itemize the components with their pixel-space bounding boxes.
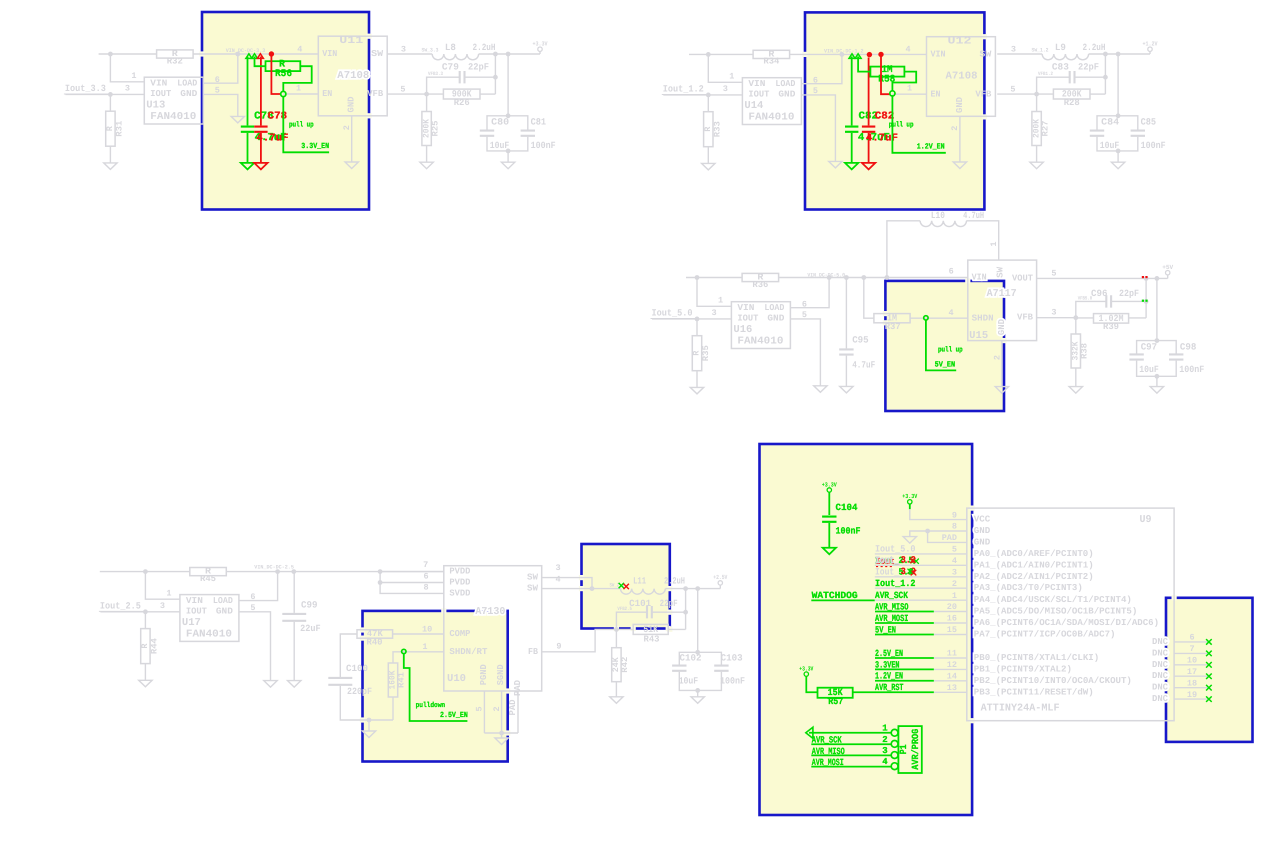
svg-text:VFB: VFB [975, 90, 992, 100]
highlight box 4 (2.5V enable area) [363, 611, 508, 762]
svg-text:1: 1 [166, 588, 171, 598]
svg-text:20: 20 [947, 602, 957, 612]
svg-text:3: 3 [160, 601, 165, 611]
wire R33 to ground [707, 147, 709, 164]
net-tie arrow red (C78) [257, 54, 263, 59]
svg-text:8: 8 [423, 583, 428, 593]
svg-text:C85: C85 [1141, 117, 1157, 128]
ground below R27 [1030, 162, 1043, 169]
wire U17 pin 3 [100, 611, 179, 613]
red junction dot (C82) [867, 52, 872, 57]
svg-text:PA5_(ADC5/DO/MISO/OC1B/PCINT5): PA5_(ADC5/DO/MISO/OC1B/PCINT5) [974, 607, 1137, 617]
node junction LOAD-U17 [275, 569, 280, 574]
wire GND pin 8 [910, 531, 967, 537]
resistor R35 (load) [696, 319, 698, 336]
svg-text:PA2_(ADC2/AIN1/PCINT2): PA2_(ADC2/AIN1/PCINT2) [974, 572, 1094, 582]
svg-text:VFB: VFB [367, 89, 384, 99]
svg-text:1: 1 [729, 72, 734, 82]
svg-text:6: 6 [1189, 633, 1194, 643]
ground below C97 [1150, 387, 1163, 394]
svg-text:SVDD: SVDD [449, 588, 471, 598]
svg-text:PA1_(ADC1/AIN0/PCINT1): PA1_(ADC1/AIN0/PCINT1) [974, 560, 1094, 570]
U9 DNC pin 7 [1152, 644, 1209, 658]
svg-text:R35: R35 [701, 345, 711, 361]
svg-text:Iout_5.0: Iout_5.0 [652, 308, 693, 319]
svg-text:PA0_(ADC0/AREF/PCINT0): PA0_(ADC0/AREF/PCINT0) [974, 549, 1094, 559]
svg-text:R31: R31 [114, 121, 124, 137]
wire U15 GND pin 2 [1001, 341, 1003, 387]
node junction VOUT-R39 [1144, 276, 1149, 281]
svg-text:IOUT: IOUT [186, 607, 208, 617]
wire R31 to ground [109, 146, 111, 163]
svg-text:100nF: 100nF [531, 140, 556, 151]
svg-text:U16: U16 [733, 324, 752, 336]
capacitors C97 and C98 [1156, 278, 1158, 340]
svg-text:A7117: A7117 [987, 288, 1017, 300]
node junction VOUT-C97 [1155, 276, 1160, 281]
svg-text:Iout_: Iout_ [875, 555, 899, 566]
svg-text:2.2uH: 2.2uH [664, 576, 685, 587]
svg-text:VIN: VIN [748, 79, 765, 89]
svg-text:DNC: DNC [1152, 683, 1169, 693]
wire U13 pin 5 GND [203, 94, 238, 116]
resistor R42 (24K) [615, 629, 617, 647]
ground below R31 [104, 163, 117, 170]
svg-text:VFB: VFB [1017, 313, 1034, 323]
node junction at U16 pin1 branch [695, 275, 700, 280]
svg-text:COMP: COMP [449, 629, 471, 639]
svg-text:2: 2 [952, 579, 957, 589]
resistor R26 (900K) [427, 93, 444, 95]
svg-text:22pF: 22pF [1119, 288, 1139, 299]
border gap patches [199, 34, 1176, 736]
svg-text:3: 3 [555, 563, 560, 573]
svg-text:AVR_SCK: AVR_SCK [875, 590, 908, 601]
svg-text:5V_EN: 5V_EN [935, 361, 956, 370]
svg-text:AVR/PROG: AVR/PROG [910, 729, 921, 770]
node junction SW-C80 [506, 52, 511, 57]
wire U16 pin 3 [652, 318, 731, 320]
wire VIN rail to U13 [99, 53, 157, 55]
ground below U15 [995, 387, 1008, 394]
resistor R41 (160K) [392, 697, 394, 720]
capacitor C104 (100nF) [828, 492, 830, 515]
red junction dot on VIN rail (EN) [878, 52, 883, 57]
wire U10 SVDD pin 8 [380, 583, 444, 594]
svg-text:3: 3 [125, 83, 130, 93]
wire C79 left [427, 77, 460, 94]
node junction at U17 pin1 branch [143, 569, 148, 574]
svg-text:4: 4 [882, 757, 888, 767]
wire VIN rail after R32 [193, 53, 318, 55]
svg-text:R43: R43 [644, 635, 660, 645]
svg-text:R57: R57 [828, 696, 843, 707]
svg-text:PA3_(ADC3/T0/PCINT3): PA3_(ADC3/T0/PCINT3) [974, 583, 1083, 593]
node junction at U14 pin1 branch [706, 52, 711, 57]
resistor R31 (load) [109, 94, 111, 111]
svg-text:5: 5 [400, 84, 405, 94]
svg-text:C80: C80 [491, 117, 509, 128]
capacitor C81 (green) [851, 57, 853, 126]
svg-text:4.7uH: 4.7uH [963, 210, 984, 221]
svg-text:L10: L10 [931, 210, 945, 221]
svg-text:1: 1 [882, 724, 888, 734]
wire U16 pin 5 GND [790, 319, 820, 386]
IC U10 A7130 body [444, 566, 542, 691]
svg-text:R32: R32 [167, 56, 183, 66]
svg-text:5: 5 [1051, 268, 1056, 278]
highlight box 3 (5V enable area) [885, 281, 1004, 411]
svg-text:4: 4 [297, 44, 302, 54]
svg-text:SGND: SGND [496, 664, 506, 686]
svg-text:C104: C104 [836, 502, 858, 513]
IC U14 FAN4010 body [742, 78, 801, 125]
ground below R38 [1069, 387, 1082, 394]
node junction SW-C83 [1103, 52, 1108, 57]
wire C101 left [616, 612, 647, 629]
capacitor C96 (22pF) [1106, 295, 1111, 307]
wire SW to L9 [997, 53, 1042, 55]
svg-text:IOUT: IOUT [150, 89, 172, 99]
svg-text:IOUT: IOUT [748, 90, 770, 100]
svg-text:VIN_DC-DC-5.0: VIN_DC-DC-5.0 [807, 273, 845, 279]
stray X markers at SW_2.5 [619, 583, 624, 588]
svg-text:10uF: 10uF [490, 140, 510, 151]
wire L11 to +2.5V [665, 588, 720, 590]
svg-text:R34: R34 [763, 57, 780, 67]
svg-text:C98: C98 [1180, 341, 1197, 352]
svg-text:LOAD: LOAD [177, 79, 198, 89]
wire PAD pin [517, 691, 519, 733]
capacitor C99 (22uF) [291, 569, 296, 574]
ground below R33 [702, 163, 715, 170]
svg-text:22pF: 22pF [660, 598, 678, 609]
svg-text:FAN4010: FAN4010 [186, 628, 232, 640]
ground below R35 [690, 387, 703, 394]
svg-text:14: 14 [947, 672, 957, 682]
wire U10 SW pin 3 [542, 578, 592, 589]
svg-text:GND: GND [778, 90, 796, 100]
svg-text:1: 1 [296, 83, 301, 93]
svg-text:1: 1 [989, 242, 999, 247]
svg-text:+1.2V: +1.2V [1143, 41, 1158, 48]
resistor R36 (sense) [742, 273, 779, 281]
wire SHDN to 5V_EN label [926, 321, 956, 371]
wire P1 pin 1 with arrow [809, 732, 891, 734]
U9 left pin numbers [942, 510, 957, 693]
node junction L11-C102 [695, 586, 700, 591]
wire 2.5V_EN [875, 657, 934, 659]
svg-text:6: 6 [802, 299, 807, 309]
wire C79 right [465, 76, 496, 78]
svg-text:Iout_2.5: Iout_2.5 [100, 601, 141, 612]
svg-text:PVDD: PVDD [449, 567, 471, 577]
svg-text:5: 5 [813, 86, 818, 96]
svg-text:PGND: PGND [479, 664, 489, 686]
inductor L8 [432, 54, 478, 60]
svg-text:VCC: VCC [974, 515, 991, 525]
resistor R34 (sense) [753, 50, 790, 58]
wire L8 to +3.3V [479, 53, 540, 55]
svg-text:3: 3 [1051, 308, 1056, 318]
power flag +3.3V at VCC [908, 500, 912, 504]
svg-text:DNC: DNC [1152, 637, 1169, 647]
svg-text:L8: L8 [445, 42, 456, 53]
svg-text:GND: GND [997, 319, 1007, 336]
svg-text:GND: GND [347, 96, 357, 113]
EN node circle U12 (green) [890, 91, 895, 96]
wire U16 pin 1 [697, 278, 731, 307]
svg-text:10: 10 [1187, 656, 1197, 666]
wire VCC pin 9 [910, 509, 967, 519]
IC U11 A7108 body [318, 36, 387, 116]
svg-text:1: 1 [422, 642, 427, 652]
wire VIN rail after R45 [226, 571, 444, 573]
svg-text:FB: FB [528, 647, 539, 657]
svg-text:PA6_(PCINT6/OC1A/SDA/MOSI/DI/A: PA6_(PCINT6/OC1A/SDA/MOSI/DI/ADC6) [974, 618, 1159, 628]
svg-text:100nF: 100nF [1179, 364, 1204, 375]
highlight box 6 (AVR controller area) [760, 444, 973, 815]
svg-text:C83: C83 [1052, 62, 1069, 73]
wire L9 to +1.2V [1089, 53, 1150, 55]
wire EN to 3.3V_EN label [283, 97, 329, 153]
svg-text:C97: C97 [1141, 341, 1158, 352]
ground below C104 [823, 548, 836, 555]
svg-text:SHDN: SHDN [972, 314, 994, 324]
wire R44 to ground [144, 664, 146, 681]
ground below C81 (green) [845, 163, 858, 170]
no-connect X at pin 17 [1206, 674, 1212, 680]
svg-text:IOUT: IOUT [737, 314, 759, 324]
wire 3.3VEN [875, 668, 934, 670]
wire U12 EN pin 1 [892, 93, 926, 95]
highlight box 1 (3.3V enable area) [202, 12, 369, 210]
svg-text:3: 3 [952, 568, 957, 578]
resistor R32 (sense) [157, 50, 194, 58]
node junction PVDD2 branch [378, 580, 383, 585]
svg-text:7: 7 [423, 560, 428, 570]
resistor R58 (1M green) [858, 57, 870, 72]
svg-text:4.7uF: 4.7uF [852, 359, 875, 370]
svg-text:DNC: DNC [1152, 648, 1169, 658]
svg-text:Iout_: Iout_ [875, 567, 899, 578]
wire AVR_MOSI [875, 622, 934, 624]
wire EN to 1.2V_EN label [892, 96, 945, 153]
node junction Iout_2.5 [143, 609, 148, 614]
power flag +3.3V at C104 [827, 488, 831, 492]
wire AVR_MISO [875, 611, 934, 613]
wire U17 pin 5 GND [239, 612, 271, 681]
svg-text:1: 1 [131, 71, 136, 81]
svg-text:GND: GND [767, 314, 785, 324]
wire VIN rail to U10 PVDD [380, 571, 444, 573]
svg-text:C102: C102 [680, 653, 702, 664]
power flag +2.5V [718, 581, 722, 585]
svg-text:100nF: 100nF [1141, 140, 1166, 151]
net-tie arrow green (C77) [246, 54, 252, 59]
ground at U14 pin 5 [829, 161, 842, 168]
ground below C82 (red) [862, 163, 875, 170]
node junction SW-C84 [1116, 52, 1121, 57]
svg-text:R26: R26 [454, 98, 470, 108]
wire U17 pin 1 [145, 572, 180, 600]
wire U13 pin 6 LOAD [203, 54, 238, 83]
svg-text:220pF: 220pF [347, 686, 372, 697]
svg-text:FAN4010: FAN4010 [150, 111, 196, 123]
highlight box 2 (1.2V enable area) [805, 12, 984, 209]
capacitor C79 (22pF) [460, 71, 465, 83]
U9 DNC pin 18 [1152, 678, 1209, 692]
svg-text:6: 6 [813, 75, 818, 85]
wire U15 VFB pin 3 [1037, 317, 1076, 319]
svg-text:12: 12 [947, 660, 957, 670]
svg-text:SW_3.3: SW_3.3 [422, 48, 439, 54]
ground below C84 [1111, 162, 1124, 169]
IC U16 FAN4010 body [731, 302, 790, 349]
node junction C83 right [1103, 75, 1108, 80]
P1 pin 1 circle [891, 729, 898, 736]
IC U13 FAN4010 body [144, 77, 203, 124]
wire VIN rail to U16 [686, 277, 742, 279]
svg-text:SW_1.2: SW_1.2 [1032, 48, 1049, 54]
svg-text:SW: SW [979, 49, 992, 59]
svg-text:3: 3 [882, 746, 887, 756]
svg-text:PA7_(PCINT7/ICP/OC0B/ADC7): PA7_(PCINT7/ICP/OC0B/ADC7) [974, 630, 1116, 640]
svg-text:EN: EN [931, 90, 941, 100]
U9 DNC pin 6 [1152, 633, 1209, 647]
stray green dots near C96 [1142, 300, 1144, 302]
resistor R56 (green) [255, 57, 266, 67]
net label Iout_3.3 (being edited, overlapped) [874, 555, 918, 567]
svg-text:A7108: A7108 [946, 71, 978, 83]
node junction GND/PAD [925, 529, 930, 534]
svg-text:5: 5 [475, 706, 485, 711]
ground below R25 [420, 162, 433, 169]
wire ground join under U10 [484, 732, 518, 734]
svg-text:EN: EN [322, 89, 332, 99]
ground below R42 [610, 697, 623, 704]
wire VIN rail to U17 [100, 571, 190, 573]
svg-text:10: 10 [422, 625, 432, 635]
IC U15 A7117 body [968, 260, 1037, 341]
no-connect X at pin 6 [1206, 639, 1212, 645]
resistor R57 (15K) [818, 688, 853, 698]
svg-text:22uF: 22uF [300, 623, 321, 634]
resistor R45 (sense) [190, 568, 227, 576]
wire VFB pin [997, 93, 1036, 95]
wire U14 pin 6 LOAD [801, 54, 842, 83]
ground below U11 [345, 162, 358, 169]
svg-text:VFB1.2: VFB1.2 [1038, 71, 1053, 77]
svg-text:ATTINY24A-MLF: ATTINY24A-MLF [981, 703, 1060, 715]
wire R40 to COMP pin 10 [393, 633, 444, 635]
resistor R33 (load) [707, 95, 709, 112]
IC U17 FAN4010 body [180, 595, 239, 642]
wire C101 right [652, 611, 686, 613]
wire SW to L8 [387, 53, 432, 55]
wire U13 pin 3 [65, 93, 144, 95]
svg-text:2: 2 [882, 735, 887, 745]
U9 DNC pin 19 [1152, 690, 1209, 704]
wire P1 pin 2 [811, 743, 891, 745]
svg-text:10uF: 10uF [1139, 364, 1159, 375]
svg-text:6: 6 [949, 266, 954, 276]
wire VIN rail after R36 [779, 277, 968, 279]
svg-text:6: 6 [423, 571, 428, 581]
capacitor C78 (red) [260, 57, 262, 126]
node junction Iout_5.0 [695, 317, 700, 322]
svg-text:pull up: pull up [889, 120, 914, 129]
U9 left pin names [974, 515, 1159, 698]
SHDN node circle (green) [924, 316, 928, 320]
wire U14 pin 1 [708, 54, 742, 82]
connector P1 AVR/PROG [898, 726, 921, 773]
capacitors C84 and C85 [1117, 54, 1119, 116]
svg-text:C99: C99 [301, 600, 318, 611]
capacitors C80 and C81 [507, 54, 509, 116]
wire U13 pin 1 [110, 54, 144, 82]
wire +3.3V to R57 [806, 676, 817, 692]
ground below C99 [288, 681, 301, 688]
inductor L11 [621, 589, 666, 595]
wire R35 to ground [696, 371, 698, 388]
wire SW node to L11 [592, 588, 621, 590]
svg-text:51K: 51K [643, 624, 658, 635]
svg-text:U12: U12 [948, 35, 972, 47]
wire VFB pin [387, 93, 426, 95]
svg-text:GND: GND [974, 526, 991, 536]
svg-text:L9: L9 [1055, 42, 1066, 53]
svg-text:VIN: VIN [186, 596, 203, 606]
svg-text:R45: R45 [200, 574, 216, 584]
svg-text:L11: L11 [633, 576, 646, 587]
svg-text:3: 3 [723, 84, 728, 94]
svg-text:Iout_5.0: Iout_5.0 [875, 544, 916, 555]
svg-text:R27: R27 [1040, 121, 1050, 137]
wire VIN rail to U14 [689, 53, 753, 55]
svg-text:pull up: pull up [289, 120, 314, 129]
svg-text:FAN4010: FAN4010 [748, 112, 794, 124]
svg-text:100nF: 100nF [836, 525, 861, 536]
svg-text:R40: R40 [367, 638, 383, 648]
wire SHDN/RT to 2.5V_EN label [404, 654, 468, 721]
svg-text:SHDN/RT: SHDN/RT [449, 647, 488, 657]
svg-text:R28: R28 [1064, 98, 1080, 108]
P1 pin 3 circle [891, 752, 898, 759]
svg-text:Iout_1.2: Iout_1.2 [663, 84, 704, 95]
net-tie arrow green (R58) [855, 54, 861, 59]
wire U10 PVDD pin 6 [380, 572, 444, 583]
node junction SW-C79 [493, 52, 498, 57]
stray red dots on VOUT wire [1142, 276, 1144, 278]
svg-text:PB2_(PCINT10/INT0/OC0A/CKOUT): PB2_(PCINT10/INT0/OC0A/CKOUT) [974, 676, 1132, 686]
node junction PVDD branch [378, 569, 383, 574]
svg-text:U9: U9 [1140, 514, 1152, 526]
ground below U12 [953, 162, 966, 169]
svg-text:17: 17 [1187, 667, 1197, 677]
svg-text:SW: SW [996, 266, 1006, 278]
svg-text:R41: R41 [397, 672, 407, 688]
svg-text:PVDD: PVDD [449, 578, 471, 588]
no-connect X at pin 10 [1206, 662, 1212, 668]
svg-text:3: 3 [1011, 44, 1016, 54]
svg-text:C95: C95 [852, 335, 869, 346]
wire U17 pin 6 LOAD [239, 572, 278, 601]
svg-text:2: 2 [492, 706, 502, 711]
power flag +1.2V [1148, 47, 1152, 51]
svg-text:VIN_DC-DC-3.3: VIN_DC-DC-3.3 [226, 48, 266, 54]
resistor R44 (load) [144, 612, 146, 629]
